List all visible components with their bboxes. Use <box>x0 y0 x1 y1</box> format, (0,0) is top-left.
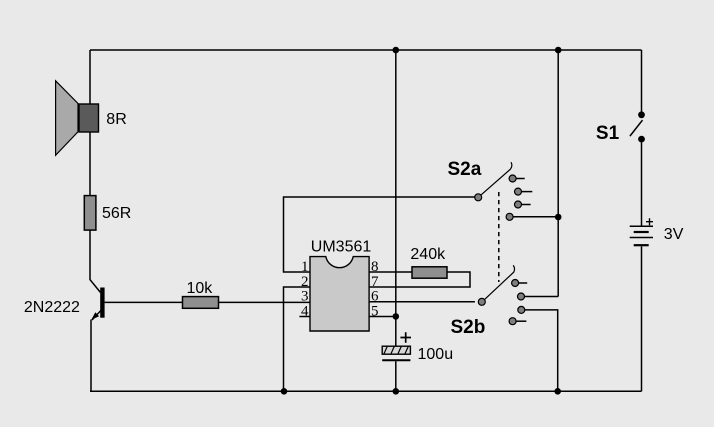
wire capacitor to bottom rail <box>395 361 397 391</box>
wire top rail <box>90 49 642 51</box>
battery BT1 plate long 1 <box>630 225 653 227</box>
switch S2b contact 4 <box>509 318 516 325</box>
junction center-bottom <box>393 388 400 395</box>
pin 4 stub <box>299 316 310 318</box>
wire 240k to pin 7 loop <box>369 272 470 287</box>
switch S2b contact 2 <box>518 293 525 300</box>
resistor 56R <box>84 196 96 231</box>
svg-text:8R: 8R <box>106 111 126 128</box>
svg-text:1: 1 <box>301 259 309 275</box>
wire base to 10k <box>105 301 183 303</box>
switch S2a pole <box>475 194 482 201</box>
resistor 10k <box>183 297 219 309</box>
wire S2b contact 2 to switch rail <box>524 296 558 298</box>
wire left rail upper (speaker to 56R) <box>89 50 91 195</box>
switch S2b contact 4 stub <box>516 320 526 322</box>
switch S2a contact 1 stub <box>516 178 525 180</box>
switch S1 lever <box>630 120 643 136</box>
svg-text:240k: 240k <box>410 246 446 263</box>
junction switch rail bottom <box>554 388 561 395</box>
wire bottom rail <box>90 390 642 392</box>
junction pin5 <box>393 313 400 320</box>
junction S2a rail <box>555 214 562 221</box>
wire center rail upper <box>395 50 397 346</box>
wire 56R to transistor collector <box>90 230 100 292</box>
battery BT1 plus sign <box>646 218 653 225</box>
wire S1 to battery <box>641 143 643 227</box>
battery BT1 plate short 2 <box>634 244 649 246</box>
transistor Q1 emitter arrow <box>91 312 99 320</box>
switch S2a contact 2 <box>515 188 522 195</box>
wire battery to bottom rail <box>641 246 643 391</box>
switch S2b contact 1 <box>512 280 519 287</box>
svg-text:2N2222: 2N2222 <box>24 299 80 316</box>
switch S2b contact 1 stub <box>519 282 528 284</box>
wire right rail upper <box>641 50 643 112</box>
switch S2a contact 3 stub <box>521 204 530 206</box>
dashed gang link S2a-S2b <box>498 192 500 282</box>
switch S2a contact 4 <box>506 213 513 220</box>
switch S2a contact 3 <box>515 201 522 208</box>
switch S2a lever <box>481 162 511 195</box>
speaker LS1 magnet <box>79 104 99 132</box>
svg-text:UM3561: UM3561 <box>311 239 372 256</box>
capacitor C1 bottom plate <box>382 359 410 361</box>
switch S2a contact 1 <box>509 175 516 182</box>
wire left rail lower (emitter to bottom) <box>90 320 92 392</box>
switch S1 top contact <box>638 111 645 118</box>
switch S2b lever <box>485 265 515 299</box>
wire pin 8 to 240k <box>369 271 412 273</box>
speaker LS1 cone <box>56 81 78 156</box>
IC U1 UM3561 body <box>310 257 369 331</box>
svg-text:2: 2 <box>301 274 309 290</box>
capacitor C1 plus sign <box>400 332 411 342</box>
battery BT1 plate short 1 <box>634 231 649 233</box>
wire pin 2 to ground rail <box>284 287 311 391</box>
svg-text:100u: 100u <box>418 346 454 363</box>
wire pin 6 to S2b pole <box>369 301 475 303</box>
svg-text:10k: 10k <box>187 280 214 297</box>
junction center-top <box>393 47 400 54</box>
wire S2a contact 4 to right switch rail <box>513 216 558 218</box>
svg-text:S2a: S2a <box>448 159 482 180</box>
svg-text:56R: 56R <box>102 205 131 222</box>
wire S2b contact 3 to bottom rail <box>525 310 558 391</box>
svg-text:4: 4 <box>301 303 309 319</box>
switch S2b contact 3 <box>518 306 525 313</box>
junction ground-bottom <box>281 388 288 395</box>
switch S2a contact 2 stub <box>521 191 532 193</box>
battery BT1 plate long 2 <box>630 237 653 239</box>
wire right switch rail <box>557 50 559 297</box>
svg-text:S2b: S2b <box>451 317 486 338</box>
svg-text:S1: S1 <box>596 123 620 144</box>
transistor Q1 2N2222 bar <box>100 288 104 318</box>
switch S2b pole <box>478 298 485 305</box>
switch S1 bottom contact <box>638 136 645 143</box>
wire pin 5 to capacitor rail <box>369 316 396 318</box>
transistor Q1 emitter lead <box>92 309 102 320</box>
wire 10k to pin 3 <box>219 301 311 303</box>
resistor 240k <box>412 267 447 278</box>
capacitor C1 top plate hatched <box>382 345 410 355</box>
svg-text:3V: 3V <box>664 226 684 243</box>
junction switch rail top <box>555 47 562 54</box>
svg-text:3: 3 <box>301 289 309 305</box>
wire pin 1 to S2a pole <box>284 197 475 272</box>
